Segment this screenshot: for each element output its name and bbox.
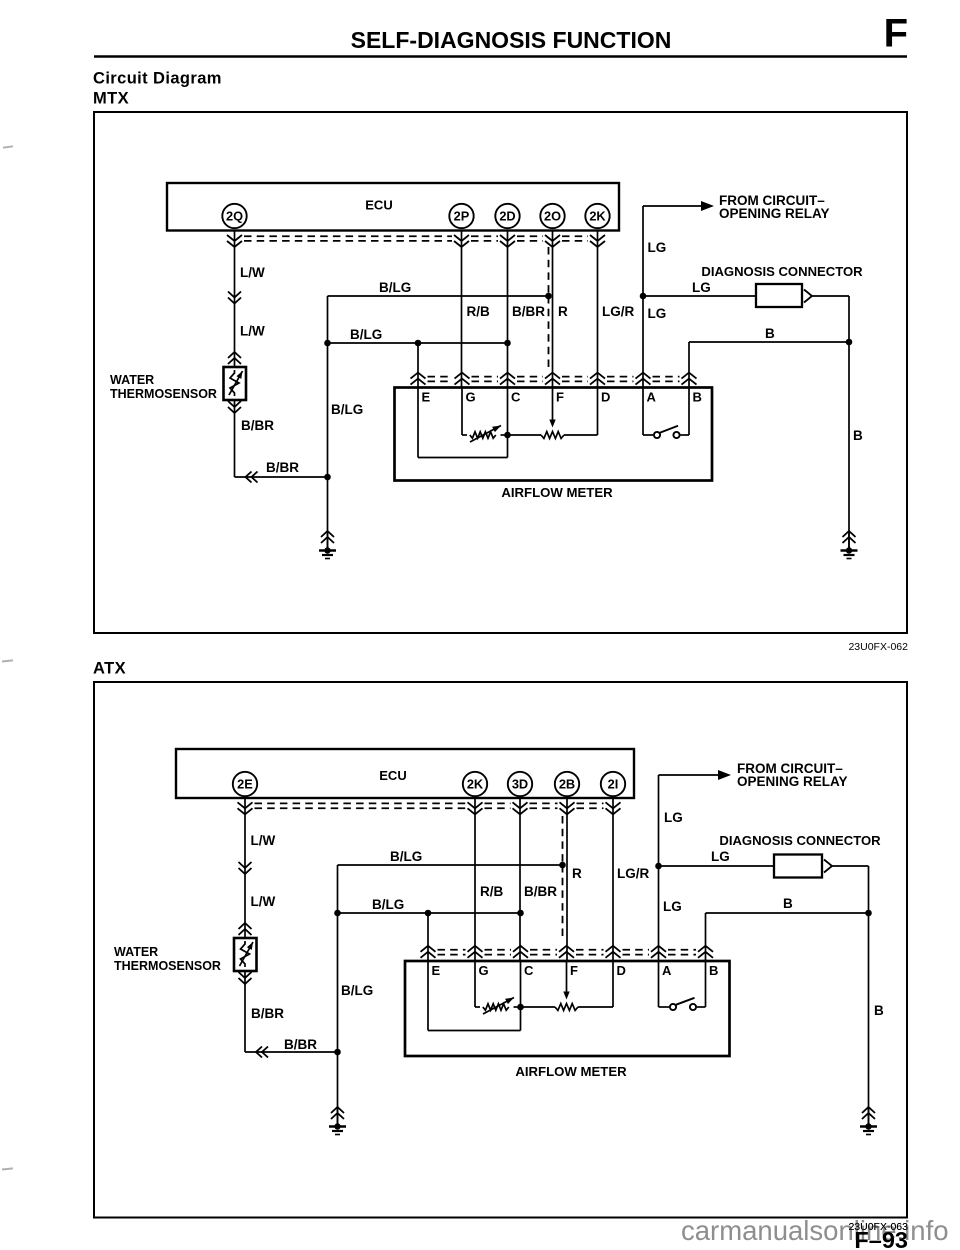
wire B/LG lower horizontal (ATX) xyxy=(338,912,521,914)
wire B/BR horizontal to B/LG ground wire (MTX) xyxy=(235,476,328,478)
svg-text:C: C xyxy=(511,390,521,405)
wire B/LG lower horizontal (MTX) xyxy=(328,342,508,344)
svg-text:F: F xyxy=(570,963,578,978)
svg-text:A: A xyxy=(647,390,657,405)
svg-text:3D: 3D xyxy=(512,777,528,792)
label WATER THERMOSENSOR (ATX) xyxy=(114,945,221,973)
svg-text:LG/R: LG/R xyxy=(617,866,649,881)
svg-text:2O: 2O xyxy=(544,209,561,224)
ground G2 right (ATX) xyxy=(860,1107,877,1135)
ECU pin 2B (ATX) xyxy=(555,772,579,796)
airflow meter terminal letters (MTX) xyxy=(422,390,702,405)
connector chevron at ECU pin 3D (ATX) xyxy=(513,802,528,814)
connector chevron at airflow meter terminal C (ATX) xyxy=(513,946,528,958)
wire to circuit opening relay (ATX) xyxy=(659,774,721,776)
wire from ECU pin 2P to airflow meter terminal G (MTX) xyxy=(461,231,463,388)
svg-text:AIRFLOW METER: AIRFLOW METER xyxy=(515,1064,627,1079)
wire from diagnosis connector to B wire (ATX) xyxy=(832,865,869,867)
svg-text:C: C xyxy=(524,963,534,978)
svg-text:B/BR: B/BR xyxy=(251,1006,284,1021)
junction C-E-VR1 (MTX) xyxy=(504,432,511,439)
junction B/LG upper on dashed R wire (ATX) xyxy=(559,862,566,869)
svg-text:ATX: ATX xyxy=(93,660,126,678)
arrow to circuit opening relay (ATX) xyxy=(718,770,731,780)
svg-text:THERMOSENSOR: THERMOSENSOR xyxy=(110,387,217,401)
connector boundary dashed lines above airflow meter (MTX) xyxy=(428,377,680,382)
wire from B/LG to airflow meter terminal E (ATX) xyxy=(427,913,429,961)
wire from diagnosis connector to B wire (MTX) xyxy=(812,295,849,297)
wire L/W from ECU pin 2E to water thermosensor (ATX) xyxy=(244,798,246,938)
ATX diagram border frame xyxy=(94,682,907,1218)
svg-text:A: A xyxy=(662,963,672,978)
svg-text:ECU: ECU xyxy=(365,198,392,213)
wire B horizontal (ATX) xyxy=(706,912,869,914)
connector chevron above water thermosensor (ATX) xyxy=(239,923,252,935)
terminal C internal wire (MTX) xyxy=(507,388,509,436)
svg-text:B/BR: B/BR xyxy=(284,1037,317,1052)
header rule xyxy=(94,55,907,58)
svg-text:R/B: R/B xyxy=(480,884,504,899)
wire from B/LG to airflow meter terminal E (MTX) xyxy=(417,343,419,388)
terminal F tap wire with arrow (MTX) xyxy=(549,388,555,428)
wire B/LG upper horizontal (ATX) xyxy=(338,864,563,866)
connector chevron at airflow meter terminal C (MTX) xyxy=(500,373,515,385)
svg-text:L/W: L/W xyxy=(240,265,265,280)
connector chevron at airflow meter terminal G (MTX) xyxy=(455,373,470,385)
connector chevron at ECU pin 2E (ATX) xyxy=(238,802,253,814)
diagnosis connector J1 (MTX) xyxy=(756,284,812,307)
junction B (ATX) xyxy=(865,910,872,917)
svg-text:B/LG: B/LG xyxy=(372,897,404,912)
ECU pin 2Q (MTX) xyxy=(222,204,246,228)
wire from ECU pin 2B to airflow meter terminal F (ATX) xyxy=(566,798,568,961)
label FROM CIRCUIT-OPENING RELAY (MTX) xyxy=(719,193,830,221)
svg-text:L/W: L/W xyxy=(251,833,276,848)
ECU pin 2D (MTX) xyxy=(495,204,519,228)
scan artifact marks left margin xyxy=(2,145,13,1170)
svg-text:carmanualsonline.info: carmanualsonline.info xyxy=(681,1215,949,1246)
svg-text:E: E xyxy=(422,390,431,405)
wire B to airflow meter terminal B (ATX) xyxy=(705,913,707,961)
wire B/LG vertical to ground (MTX) xyxy=(327,296,329,551)
label FROM CIRCUIT-OPENING RELAY (ATX) xyxy=(737,761,848,789)
junction B/LG lower left (MTX) xyxy=(324,340,331,347)
wire B vertical to ground (MTX) xyxy=(848,296,850,551)
junction B/BR-B/LG (MTX) xyxy=(324,474,331,481)
wire from ECU pin 2K to airflow meter terminal G (ATX) xyxy=(474,798,476,961)
svg-text:B/LG: B/LG xyxy=(379,280,411,295)
connector chevron below water thermosensor (ATX) xyxy=(239,972,252,984)
svg-text:B/LG: B/LG xyxy=(350,327,382,342)
svg-text:AIRFLOW METER: AIRFLOW METER xyxy=(501,485,613,500)
svg-text:G: G xyxy=(466,390,476,405)
inline connector chevron on L/W wire (MTX) xyxy=(228,292,241,304)
svg-text:E: E xyxy=(432,963,441,978)
junction B/LG at terminal C wire (ATX) xyxy=(517,910,524,917)
svg-text:2B: 2B xyxy=(559,777,575,792)
terminal G internal wire (ATX) xyxy=(474,961,476,1007)
connector chevron below water thermosensor (MTX) xyxy=(228,401,241,413)
svg-text:LG: LG xyxy=(664,810,683,825)
terminal C internal wire (ATX) xyxy=(520,961,522,1007)
connector boundary dashed lines below ECU (MTX) xyxy=(244,236,588,241)
svg-text:2E: 2E xyxy=(237,777,253,792)
wire LG vertical to airflow meter terminal A (MTX) xyxy=(642,206,644,388)
terminal A internal wire (ATX) xyxy=(658,961,660,1007)
svg-text:SELF-DIAGNOSIS FUNCTION: SELF-DIAGNOSIS FUNCTION xyxy=(351,27,672,53)
terminal B internal wire (MTX) xyxy=(688,388,690,436)
ECU pin 3D (ATX) xyxy=(508,772,532,796)
connector chevron at airflow meter terminal B (ATX) xyxy=(698,946,713,958)
dashed companion wire beside R wire (MTX) xyxy=(548,247,550,296)
label WATER THERMOSENSOR (MTX) xyxy=(110,373,217,401)
junction B/LG at terminal E wire (ATX) xyxy=(425,910,432,917)
ECU U1 (MTX) xyxy=(167,183,619,231)
connector chevron at airflow meter terminal E (ATX) xyxy=(421,946,436,958)
wire LG vertical to airflow meter terminal A (ATX) xyxy=(658,775,660,961)
wire B/LG upper horizontal (MTX) xyxy=(328,295,549,297)
junction B/LG at terminal E wire (MTX) xyxy=(415,340,422,347)
svg-text:L/W: L/W xyxy=(251,894,276,909)
svg-text:B/LG: B/LG xyxy=(341,983,373,998)
airflow meter M1 (MTX) xyxy=(395,388,713,481)
svg-text:2D: 2D xyxy=(499,209,515,224)
svg-text:LG: LG xyxy=(692,280,711,295)
wire B/BR below water thermosensor (ATX) xyxy=(244,971,246,1052)
svg-text:DIAGNOSIS CONNECTOR: DIAGNOSIS CONNECTOR xyxy=(719,833,881,848)
svg-text:ECU: ECU xyxy=(379,768,406,783)
svg-text:LG: LG xyxy=(711,849,730,864)
airflow meter M1 (ATX) xyxy=(405,961,730,1056)
connector chevron at airflow meter terminal B (MTX) xyxy=(682,373,697,385)
junction B/LG at terminal C wire (MTX) xyxy=(504,340,511,347)
svg-text:B: B xyxy=(853,428,863,443)
svg-text:B/BR: B/BR xyxy=(512,304,545,319)
svg-text:DIAGNOSIS CONNECTOR: DIAGNOSIS CONNECTOR xyxy=(701,264,863,279)
connector chevron at ECU pin 2I (ATX) xyxy=(606,802,621,814)
connector chevron at airflow meter terminal F (MTX) xyxy=(545,373,560,385)
svg-text:G: G xyxy=(479,963,489,978)
ground G1 left (ATX) xyxy=(329,1107,346,1135)
terminal D internal wire (MTX) xyxy=(597,388,599,436)
connector chevron at airflow meter terminal F (ATX) xyxy=(559,946,574,958)
junction LG (ATX) xyxy=(655,863,662,870)
wire from ECU pin 2O to airflow meter terminal F (MTX) xyxy=(552,231,554,388)
svg-text:B/BR: B/BR xyxy=(266,460,299,475)
svg-text:23U0FX-062: 23U0FX-062 xyxy=(848,641,908,653)
svg-text:2K: 2K xyxy=(467,777,484,792)
junction B/BR-B/LG (ATX) xyxy=(334,1049,341,1056)
svg-text:OPENING RELAY: OPENING RELAY xyxy=(737,774,848,789)
resistor R1 (ATX) xyxy=(521,1004,614,1011)
wire from ECU pin 3D to airflow meter terminal C (ATX) xyxy=(519,798,521,961)
wire L/W from ECU pin 2Q to water thermosensor (MTX) xyxy=(234,231,236,368)
wire LG to diagnosis connector (MTX) xyxy=(643,295,756,297)
svg-text:THERMOSENSOR: THERMOSENSOR xyxy=(114,959,221,973)
svg-text:D: D xyxy=(601,390,610,405)
dashed companion wire beside R wire (ATX) xyxy=(562,816,564,865)
connector chevron above water thermosensor (MTX) xyxy=(228,352,241,364)
connector chevron at ECU pin 2P (MTX) xyxy=(454,235,469,247)
connector chevron at ECU pin 2O (MTX) xyxy=(545,235,560,247)
connector chevron at airflow meter terminal E (MTX) xyxy=(411,373,426,385)
switch SW1 air flow meter contact (MTX) xyxy=(643,426,689,438)
connector chevron at airflow meter terminal A (MTX) xyxy=(636,373,651,385)
svg-text:B/BR: B/BR xyxy=(524,884,557,899)
svg-text:L/W: L/W xyxy=(240,324,265,339)
wire B/LG vertical to ground (ATX) xyxy=(337,865,339,1127)
ground G2 right (MTX) xyxy=(841,531,858,559)
ECU pin 2E (ATX) xyxy=(233,772,257,796)
wire B/BR below water thermosensor (MTX) xyxy=(234,400,236,477)
connector chevron at airflow meter terminal A (ATX) xyxy=(651,946,666,958)
svg-text:LG: LG xyxy=(663,899,682,914)
wiper arrow of VR1 (ATX) xyxy=(483,998,514,1015)
junction C-E-VR1 (ATX) xyxy=(517,1004,524,1011)
svg-text:2Q: 2Q xyxy=(226,209,243,224)
wire from ECU pin 2D to airflow meter terminal C (MTX) xyxy=(507,231,509,388)
svg-text:B: B xyxy=(783,896,793,911)
MTX diagram border frame xyxy=(94,112,907,633)
arrow to circuit opening relay (MTX) xyxy=(701,201,714,211)
inline connector chevron on L/W wire (ATX) xyxy=(239,862,252,874)
svg-text:Circuit Diagram: Circuit Diagram xyxy=(93,70,222,88)
connector chevron at ECU pin 2D (MTX) xyxy=(500,235,515,247)
connector chevron at airflow meter terminal D (MTX) xyxy=(590,373,605,385)
svg-text:R: R xyxy=(558,304,568,319)
connector boundary dashed lines below ECU (ATX) xyxy=(255,803,604,808)
water thermosensor TH1 (MTX) xyxy=(224,367,247,400)
variable resistor VR1 flow meter potentiometer (ATX) xyxy=(475,1004,521,1010)
terminal B internal wire (ATX) xyxy=(705,961,707,1007)
connector chevron at ECU pin 2Q (MTX) xyxy=(227,235,242,247)
airflow meter terminal letters (ATX) xyxy=(432,963,719,978)
terminal F tap wire with arrow (ATX) xyxy=(563,961,569,1000)
junction B (MTX) xyxy=(846,339,853,346)
svg-text:2K: 2K xyxy=(589,209,606,224)
wire LG to diagnosis connector (ATX) xyxy=(659,865,775,867)
svg-text:B: B xyxy=(709,963,718,978)
svg-text:B: B xyxy=(874,1003,884,1018)
svg-text:R: R xyxy=(572,866,582,881)
svg-text:WATER: WATER xyxy=(114,945,158,959)
ECU pin 2O (MTX) xyxy=(540,204,564,228)
svg-text:LG: LG xyxy=(648,240,667,255)
inline connector chevron on B/BR wire (MTX) xyxy=(246,472,258,483)
connector chevron at ECU pin 2K (MTX) xyxy=(590,235,605,247)
resistor R1 (MTX) xyxy=(508,432,598,439)
svg-text:WATER: WATER xyxy=(110,373,154,387)
ECU pin 2K (ATX) xyxy=(463,772,487,796)
connector chevron at airflow meter terminal D (ATX) xyxy=(606,946,621,958)
ECU pin 2I (ATX) xyxy=(601,772,625,796)
water thermosensor TH1 (ATX) xyxy=(234,938,257,971)
svg-text:LG/R: LG/R xyxy=(602,304,634,319)
variable resistor VR1 flow meter potentiometer (MTX) xyxy=(462,432,508,438)
connector chevron at ECU pin 2K (ATX) xyxy=(468,802,483,814)
terminal E internal wire (MTX) xyxy=(418,388,508,458)
wire B/BR horizontal to B/LG ground wire (ATX) xyxy=(245,1051,338,1053)
svg-text:OPENING RELAY: OPENING RELAY xyxy=(719,206,830,221)
ECU U1 (ATX) xyxy=(176,749,634,798)
connector chevron at ECU pin 2B (ATX) xyxy=(560,802,575,814)
terminal E internal wire (ATX) xyxy=(428,961,521,1031)
svg-text:F: F xyxy=(556,390,564,405)
wire B horizontal (MTX) xyxy=(689,341,849,343)
wire from ECU pin 2I to airflow meter terminal D (ATX) xyxy=(612,798,614,961)
diagnosis connector J1 (ATX) xyxy=(774,855,832,878)
wire B vertical to ground (ATX) xyxy=(868,866,870,1127)
wire to circuit opening relay (MTX) xyxy=(643,205,703,207)
connector boundary dashed lines above airflow meter (ATX) xyxy=(438,950,697,955)
switch SW1 air flow meter contact (ATX) xyxy=(659,998,706,1010)
inline connector chevron on B/BR wire (ATX) xyxy=(256,1047,268,1058)
svg-text:MTX: MTX xyxy=(93,90,129,108)
svg-text:LG: LG xyxy=(648,306,667,321)
junction B/LG upper on dashed R wire (MTX) xyxy=(545,293,552,300)
svg-text:2P: 2P xyxy=(454,209,470,224)
svg-text:F–93: F–93 xyxy=(854,1227,908,1250)
wire from ECU pin 2K to airflow meter terminal D (MTX) xyxy=(597,231,599,388)
svg-text:2I: 2I xyxy=(608,777,619,792)
terminal G internal wire (MTX) xyxy=(461,388,463,436)
svg-text:B: B xyxy=(693,390,702,405)
svg-text:B/LG: B/LG xyxy=(390,849,422,864)
connector chevron at airflow meter terminal G (ATX) xyxy=(468,946,483,958)
ground G1 left (MTX) xyxy=(319,531,336,559)
svg-text:B/BR: B/BR xyxy=(241,418,274,433)
svg-text:R/B: R/B xyxy=(467,304,491,319)
ECU pin 2P (MTX) xyxy=(449,204,473,228)
junction B/LG lower left (ATX) xyxy=(334,910,341,917)
svg-text:F: F xyxy=(884,12,908,56)
wiper arrow of VR1 (MTX) xyxy=(470,426,501,443)
ECU pin 2K (MTX) xyxy=(585,204,609,228)
svg-text:B/LG: B/LG xyxy=(331,402,363,417)
svg-text:B: B xyxy=(765,326,775,341)
wire B to airflow meter terminal B (MTX) xyxy=(688,342,690,388)
terminal A internal wire (MTX) xyxy=(642,388,644,436)
svg-text:D: D xyxy=(617,963,626,978)
junction LG (MTX) xyxy=(640,293,647,300)
terminal D internal wire (ATX) xyxy=(612,961,614,1007)
